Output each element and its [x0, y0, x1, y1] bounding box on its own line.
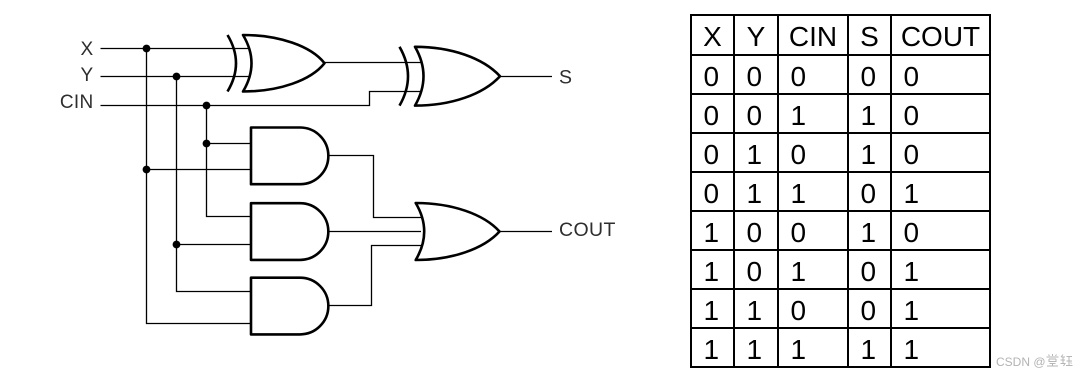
svg-text:Y: Y [81, 65, 94, 86]
svg-text:X: X [81, 39, 94, 60]
svg-text:COUT: COUT [559, 219, 616, 241]
svg-text:S: S [559, 66, 572, 88]
svg-text:CIN: CIN [60, 92, 94, 113]
